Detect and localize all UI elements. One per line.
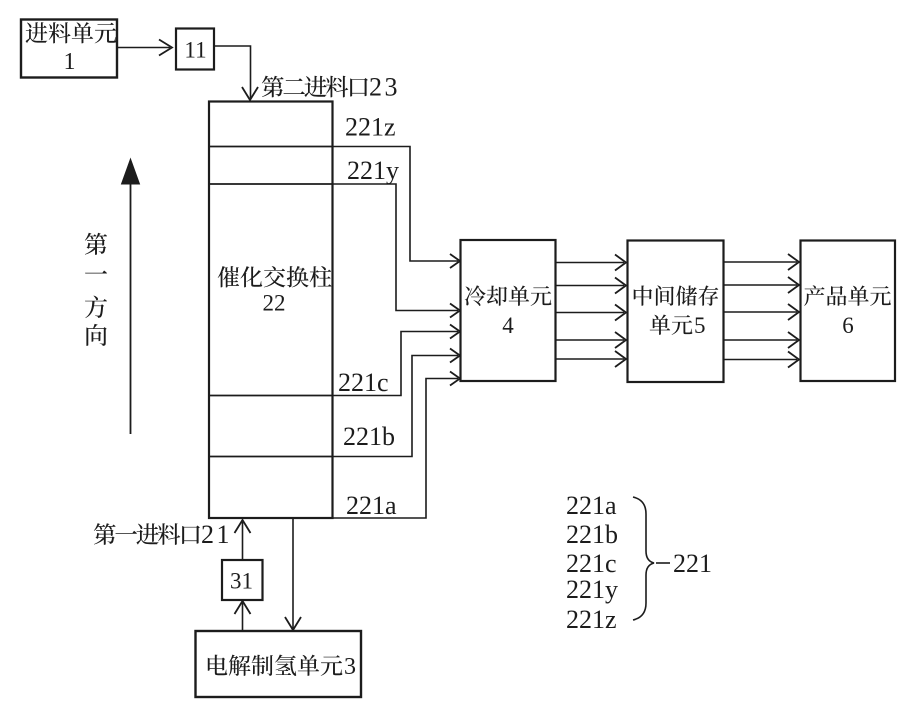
arrowhead into column top <box>242 87 258 100</box>
wire: storage unit 5 to product unit 6 (stream 2) <box>724 284 798 286</box>
vertical label 第一方向 (first direction) <box>85 233 107 255</box>
wire: valve 11 to column top feed port <box>215 46 251 98</box>
arrowhead into valve 11 <box>159 40 172 56</box>
direction arrow line (第一方向) <box>130 178 132 434</box>
arrowhead into column bottom <box>235 520 251 533</box>
wire: electrolysis unit 3 up to valve 31 <box>242 603 244 631</box>
arrowhead stream 3 into storage unit 5 <box>615 305 626 321</box>
arrowhead into valve 31 <box>235 601 251 614</box>
wire: feed unit 1 to valve 11 <box>118 47 171 49</box>
direction arrowhead (filled) <box>122 159 140 184</box>
wire: storage unit 5 to product unit 6 (stream 4) <box>724 339 798 341</box>
arrowhead stream 2 into product unit 6 <box>788 277 799 293</box>
wire: cooling unit 4 to storage unit 5 (stream 3) <box>556 312 625 314</box>
wire: cooling unit 4 to storage unit 5 (stream 4) <box>556 339 625 341</box>
wire: section 221b outlet to cooling unit 4 <box>333 356 459 457</box>
arrowhead stream 1 into storage unit 5 <box>615 255 626 271</box>
wire: section 221y outlet to cooling unit 4 <box>333 184 459 311</box>
feed unit box 1 (进料单元1) <box>21 20 117 78</box>
column divider below section 221c <box>209 395 333 397</box>
svg-text:1: 1 <box>64 49 76 75</box>
arrowhead stream 5 into storage unit 5 <box>615 351 626 367</box>
wire: section 221a outlet (column bottom) to cooling unit 4 <box>333 379 459 519</box>
arrowhead stream 1 into product unit 6 <box>788 254 799 270</box>
svg-text:221a: 221a <box>346 491 397 520</box>
catalytic exchange column 22 <box>209 102 333 519</box>
svg-text:221y: 221y <box>347 156 399 185</box>
svg-text:221c: 221c <box>338 368 389 397</box>
arrowhead 221c into cooling unit <box>450 325 460 339</box>
svg-text:221: 221 <box>673 549 712 578</box>
arrowhead stream 2 into storage unit 5 <box>615 278 626 294</box>
label 中间储存 <box>634 285 719 305</box>
svg-text:22: 22 <box>263 291 286 316</box>
wire: storage unit 5 to product unit 6 (stream 5) <box>724 359 798 361</box>
svg-text:221b: 221b <box>566 520 618 549</box>
arrowhead stream 4 into product unit 6 <box>788 332 799 348</box>
electrolysis hydrogen production unit box 3 <box>196 631 362 697</box>
svg-text:221a: 221a <box>566 491 617 520</box>
wire: section 221z outlet to cooling unit 4 <box>333 147 459 262</box>
svg-text:4: 4 <box>502 313 514 338</box>
wire: column bottom down to electrolysis unit 3 <box>292 518 294 628</box>
arrowhead stream 4 into storage unit 5 <box>615 332 626 348</box>
label 进料单元 <box>26 22 117 43</box>
svg-text:221y: 221y <box>566 575 618 604</box>
dash from brace to 221 <box>656 562 670 564</box>
arrowhead 221z into cooling unit <box>450 254 460 268</box>
wire: storage unit 5 to product unit 6 (stream 1) <box>724 261 798 263</box>
wire: cooling unit 4 to storage unit 5 (stream 1) <box>556 262 625 264</box>
svg-text:6: 6 <box>842 313 854 338</box>
label 第一进料口21 (first feed port 21) <box>94 523 200 545</box>
svg-text:31: 31 <box>230 569 253 594</box>
label 产品单元 <box>804 285 891 306</box>
svg-text:221z: 221z <box>345 113 396 142</box>
brace grouping legend <box>633 497 654 620</box>
arrowhead stream 3 into product unit 6 <box>788 304 799 320</box>
column divider below section 221z <box>209 146 333 148</box>
arrowhead into electrolysis unit 3 <box>285 617 301 630</box>
column divider below section 221b <box>209 456 333 458</box>
svg-text:221c: 221c <box>566 549 617 578</box>
svg-text:3: 3 <box>344 654 356 680</box>
arrowhead 221a into cooling unit <box>450 372 460 386</box>
column divider below section 221y <box>209 183 333 185</box>
label 第二进料口23 (second feed port 23) <box>262 76 368 98</box>
svg-text:5: 5 <box>694 313 706 338</box>
intermediate storage unit box 5 <box>628 241 724 383</box>
wire: section 221c outlet to cooling unit 4 <box>333 332 459 396</box>
wire: cooling unit 4 to storage unit 5 (stream 5) <box>556 358 625 360</box>
wire: cooling unit 4 to storage unit 5 (stream 2) <box>556 285 625 287</box>
product unit box 6 <box>801 241 896 382</box>
wire: valve 31 up to column bottom (first feed port) <box>242 522 244 560</box>
label 催化交换柱 <box>218 266 332 288</box>
svg-text:23: 23 <box>369 73 400 102</box>
label 冷却单元 <box>465 285 552 306</box>
svg-text:221b: 221b <box>343 422 395 451</box>
svg-text:11: 11 <box>184 38 206 63</box>
valve box 11 <box>176 29 214 70</box>
wire: storage unit 5 to product unit 6 (stream 3) <box>724 311 798 313</box>
label 单元5 <box>650 314 693 334</box>
svg-text:21: 21 <box>201 520 232 549</box>
arrowhead stream 5 into product unit 6 <box>788 352 799 368</box>
valve box 31 <box>222 560 263 600</box>
arrowhead 221y into cooling unit <box>450 304 460 318</box>
cooling unit box 4 <box>461 240 556 381</box>
label 电解制氢单元3 <box>208 655 343 676</box>
arrowhead 221b into cooling unit <box>450 349 460 363</box>
svg-text:221z: 221z <box>566 605 617 634</box>
